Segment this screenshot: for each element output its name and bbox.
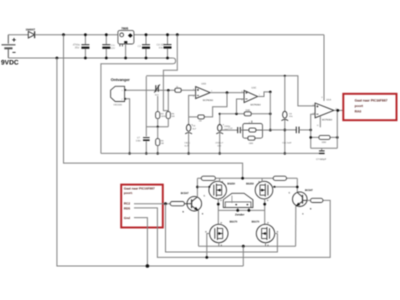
parallel RC frame of U1C: [243, 121, 263, 139]
svg-text:100n: 100n: [136, 140, 142, 143]
wire: divider mid line to Vref trunk: [146, 126, 168, 128]
resistor R3 series on signal wire: [175, 85, 181, 92]
diode D1 1N4007: [28, 31, 34, 38]
svg-text:HK1100: HK1100: [114, 104, 123, 107]
svg-text:RD5: RD5: [124, 207, 130, 211]
capacitor C6 coupling on signal wire: [154, 84, 160, 96]
transistor Q5 BS170 left: [210, 224, 228, 242]
wire: frame to feedback column: [263, 129, 271, 131]
svg-text:2200u F: 2200u F: [215, 142, 224, 145]
svg-text:RA0: RA0: [355, 110, 362, 114]
wire: U1C inverting input down: [237, 99, 245, 114]
wire: battery + to diode: [8, 34, 28, 36]
svg-text:25V: 25V: [75, 47, 80, 50]
resistor R8 1M8 U1C feedback: [237, 109, 271, 116]
op-amp U1C second stage: [244, 91, 258, 103]
wire: Vref top distribution line: [146, 76, 315, 106]
resistor R9 1M8 in frame: [249, 128, 256, 132]
transistor Q4 BS250 right: [255, 181, 273, 199]
svg-text:BS250: BS250: [246, 182, 254, 185]
svg-text:1M: 1M: [161, 142, 164, 145]
buzzer Zender: [223, 193, 253, 207]
svg-text:Gnd: Gnd: [124, 216, 130, 220]
capacitor C7 100n on Vref trunk: [136, 137, 150, 143]
wire: battery - bottom ground bus: [8, 57, 173, 59]
svg-text:Gaat naar PIC16F887: Gaat naar PIC16F887: [124, 186, 155, 190]
wire: Q1 emitter down to source rail: [198, 211, 200, 247]
svg-text:7805: 7805: [121, 27, 128, 31]
transistor Q2 BC547 right: [293, 192, 308, 207]
wire: Q5 source down: [218, 243, 220, 247]
resistor R4 100k: [156, 96, 167, 127]
gate pin squares: [209, 186, 211, 188]
capacitor C1 4700u input electrolytic: [73, 33, 90, 59]
svg-text:1M: 1M: [171, 115, 174, 118]
wire: 9V feed down to H-bridge: [64, 35, 243, 179]
wire: RC2 branch down to BS170-2 gate row: [166, 204, 278, 252]
capacitor C2 10u: [102, 33, 115, 59]
node: 5V branch to receiver stage: [176, 33, 179, 36]
resistor R13 pull-up left: [201, 176, 215, 180]
wire: Q5 gate: [207, 234, 210, 258]
svg-text:BS170: BS170: [230, 221, 238, 224]
svg-text:1N4007: 1N4007: [26, 28, 36, 31]
wire: U1D inverting input: [189, 95, 196, 117]
wire: Q3 source stub: [219, 178, 221, 182]
wire: receiver gnd pin down: [126, 99, 129, 154]
svg-text:MCP6284: MCP6284: [250, 104, 261, 107]
wire: Q6 source down: [265, 243, 267, 247]
source rail: [199, 245, 296, 247]
capacitor C10 series to frame: [220, 127, 243, 133]
resistor R6 1M lower divider: [156, 127, 165, 154]
node: ground branch junction: [56, 57, 59, 60]
capacitor C9 10u Vref decoupling: [281, 75, 293, 154]
svg-text:BS170: BS170: [252, 221, 260, 224]
receiver ground rail: [101, 152, 319, 154]
wire: 5V jog down into receiver divider: [163, 35, 177, 112]
svg-text:Zender: Zender: [235, 212, 245, 216]
wire: RD5 route: [134, 200, 330, 257]
svg-text:4u7F: 4u7F: [184, 145, 190, 148]
svg-text:BC547: BC547: [181, 192, 189, 195]
node: signal divider junction: [167, 89, 170, 92]
svg-text:poort:: poort:: [124, 191, 133, 195]
wire: receiver output to amplifier: [126, 89, 195, 91]
svg-text:U1D: U1D: [201, 83, 206, 86]
svg-text:1M8: 1M8: [245, 109, 250, 112]
svg-text:63V: 63V: [111, 47, 116, 50]
svg-text:C11 2u4F: C11 2u4F: [282, 141, 292, 144]
wire: U1D feedback staircase: [204, 93, 227, 117]
wire: gate line BS250 left: [197, 186, 209, 188]
svg-text:C? 680pF: C? 680pF: [316, 158, 327, 161]
svg-text:Gaat naar PIC16F887: Gaat naar PIC16F887: [355, 98, 388, 102]
resistor R12 base of BC547 left: [170, 202, 184, 206]
transistor Q1 BC547 left: [184, 196, 201, 211]
resistor R11 10M comparator feedback: [311, 135, 338, 144]
H-bridge top rail: [197, 177, 297, 179]
annotation box PIC RA0: [343, 94, 396, 120]
transistor Q3 BS250 left: [209, 181, 227, 199]
op-amp U1A comparator: [315, 103, 334, 118]
wire: ground bus U-turn return: [101, 58, 176, 153]
wire: Q4 drain to bridge node: [264, 199, 266, 225]
wire: ground feed down to bottom rail: [57, 58, 243, 266]
wire: Q2 emitter down: [295, 206, 297, 246]
IR receiver HK1100: [111, 86, 127, 101]
wire: U1C bias row: [220, 113, 237, 115]
wire: U1A output to PIC: [334, 109, 348, 111]
capacitor C8 4u7: [185, 117, 197, 153]
wire: Q3 drain to bridge node: [217, 199, 219, 225]
wire: Vref trunk vertical: [145, 76, 147, 136]
annotation box PIC RC2 RD5 Gnd: [121, 185, 163, 228]
wire: U1C feedback column: [269, 92, 271, 130]
svg-text:16V: 16V: [217, 145, 221, 148]
svg-text:10M: 10M: [322, 141, 327, 144]
wire: Q1 collector up to gate node: [196, 178, 198, 197]
svg-text:U1A: U1A: [326, 98, 331, 101]
capacitor C4 0.33u: [157, 33, 172, 59]
svg-text:BS250: BS250: [227, 182, 235, 185]
wire: 7805 GND pin to ground bus: [125, 43, 127, 58]
svg-text:MCP6284: MCP6284: [203, 99, 214, 102]
capacitor C11 coupling to comparator: [270, 127, 310, 145]
wire: Gnd route: [134, 218, 147, 266]
wire: U1A inverting input: [311, 114, 315, 148]
wire: Q4 gate from right: [272, 186, 297, 188]
wire: U1C output jog to feedback column: [258, 92, 271, 97]
svg-text:U1C: U1C: [252, 87, 257, 90]
capacitor C12 680pF feedback: [311, 148, 338, 161]
op-amp U1D first stage: [196, 87, 211, 99]
wire: RC2 line out of box: [134, 203, 170, 205]
voltage regulator U2 7805: [118, 30, 134, 46]
svg-text:C8(1): C8(1): [184, 142, 190, 145]
resistor R7 feedback 1M: [189, 115, 205, 122]
wire: U1D output to U1C: [210, 92, 244, 94]
svg-text:10u: 10u: [159, 47, 164, 50]
svg-text:MCP6284: MCP6284: [322, 119, 333, 122]
resistor R5 1M: [166, 90, 175, 126]
resistor R14 pull-up right: [273, 176, 286, 180]
wire: zender terminals: [218, 209, 264, 211]
wire: feedback column to output: [336, 110, 338, 148]
svg-text:1M: 1M: [199, 119, 202, 122]
resistor R15 base of BC547 right: [307, 198, 323, 202]
transistor Q6 BS170 right: [256, 224, 274, 242]
wire: source rail to ground rail: [242, 246, 244, 266]
svg-text:9VDC: 9VDC: [1, 60, 19, 67]
wire: 5V drop to op-amp U1A V+: [323, 35, 325, 101]
wire: regulator output 5V rail to right edge: [134, 34, 324, 36]
svg-text:RC2: RC2: [124, 202, 130, 206]
node: 9V branch junction: [62, 33, 65, 36]
resistor R10 1M8 in frame bottom: [248, 136, 255, 145]
svg-text:BC547: BC547: [305, 189, 313, 192]
battery B1 9VDC: [2, 35, 16, 58]
wire: Q6 gate right: [274, 233, 277, 235]
pin labels on FETs: [205, 180, 304, 247]
pin number labels on op-amps: [122, 88, 339, 115]
capacitor C5 2200u Vref reservoir: [215, 114, 231, 154]
capacitor C3 100n: [138, 33, 150, 59]
svg-text:poort: poort: [355, 104, 364, 108]
wire: diode to regulator input (+9V top rail): [35, 34, 118, 36]
wire: Q4 source stub: [261, 178, 263, 182]
svg-text:Ontvanger: Ontvanger: [111, 78, 131, 82]
